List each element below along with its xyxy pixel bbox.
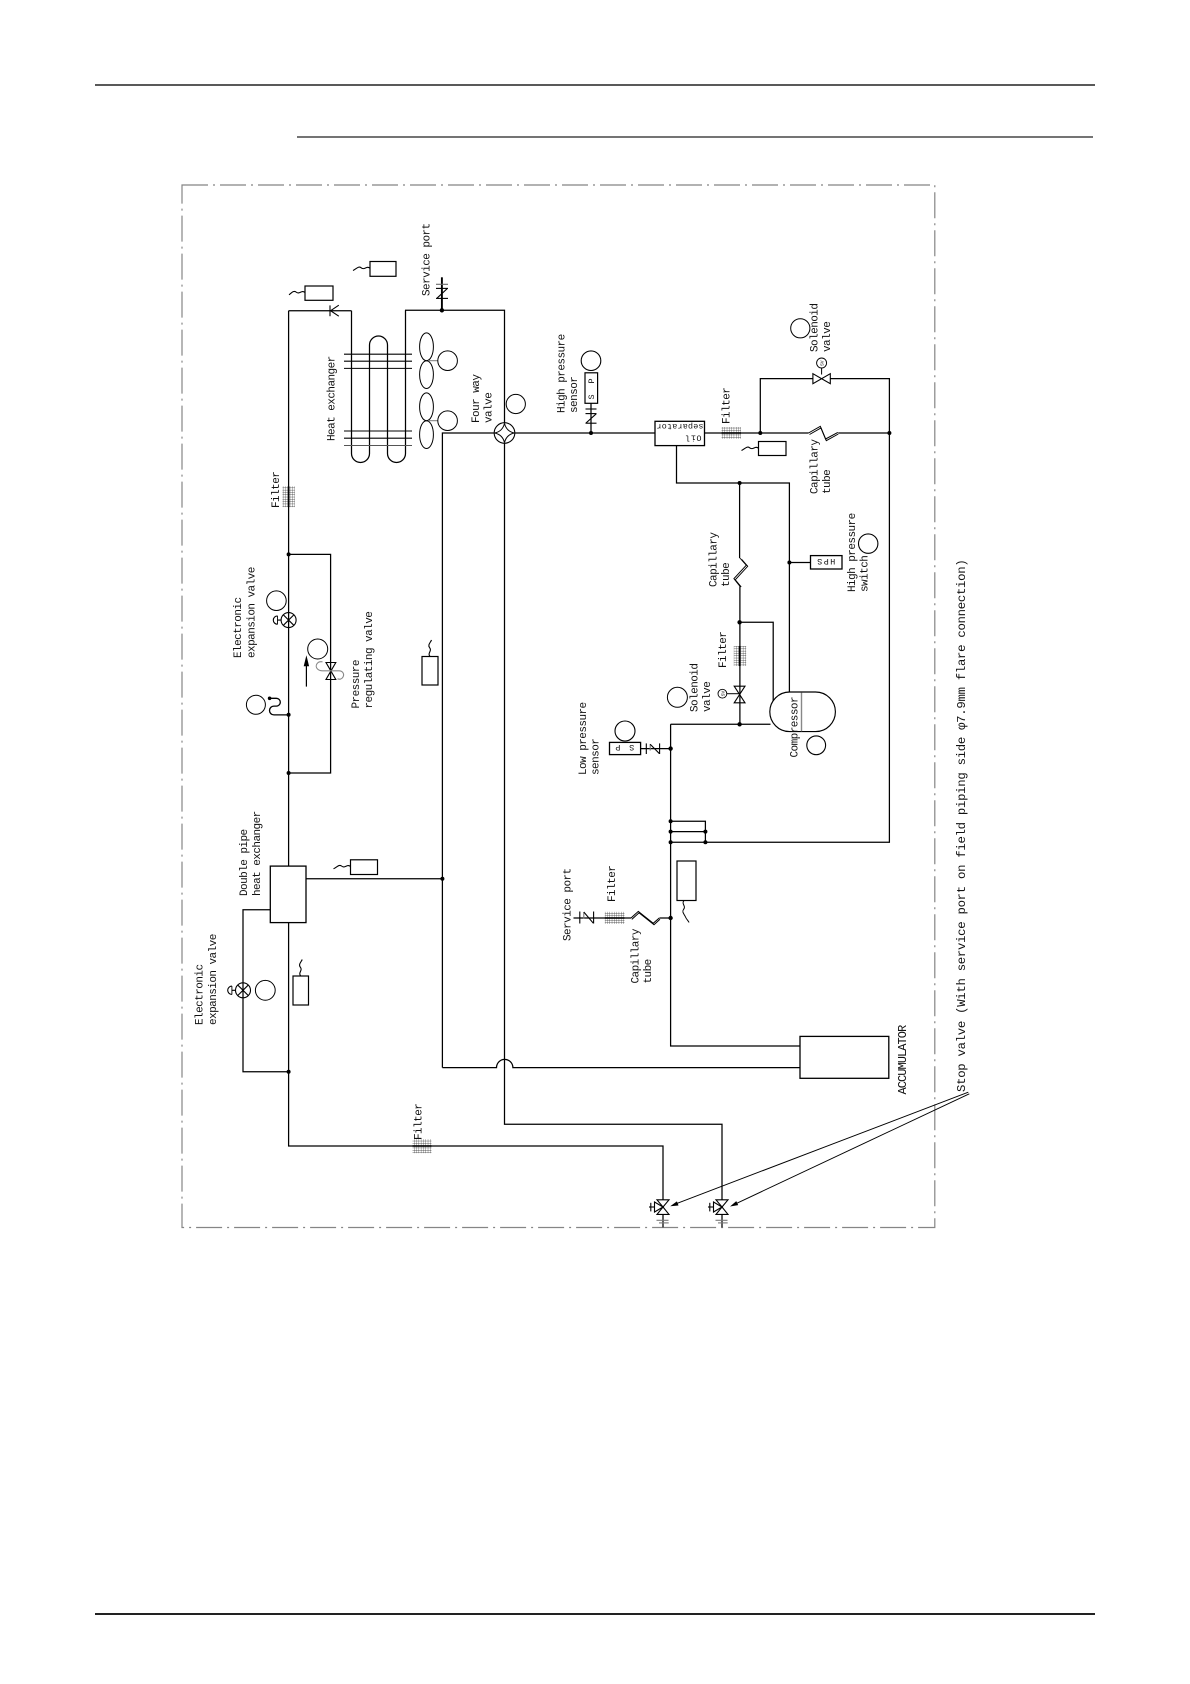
filter on branch line	[605, 912, 625, 924]
pressure regulating valve coil	[308, 639, 328, 659]
strainer on suction line	[677, 861, 696, 923]
accumulator	[800, 1036, 889, 1078]
high pressure sensor circle	[581, 351, 601, 371]
svg-text:Electronic: Electronic	[233, 597, 245, 658]
check valve on liquid line	[330, 305, 339, 316]
leader arrow to gas stop valve	[670, 1092, 968, 1206]
svg-text:Filter: Filter	[722, 388, 734, 424]
svg-text:separator: separator	[657, 421, 704, 431]
bottom rule	[95, 1613, 1095, 1615]
leader arrow to liquid stop valve	[730, 1094, 969, 1207]
filter on discharge line	[722, 427, 742, 439]
compressor motor circle	[807, 736, 826, 755]
thermistor top A	[353, 262, 396, 277]
svg-text:Service port: Service port	[563, 868, 575, 941]
high pressure switch circle	[859, 534, 878, 553]
wire: low pressure sensor stub	[641, 748, 671, 750]
electronic expansion valve 2 coil	[255, 980, 275, 1000]
wire: main left line	[289, 311, 663, 1200]
oil separator	[655, 421, 705, 445]
svg-text:Filter: Filter	[607, 866, 619, 902]
wire: four way valve left port to left drop line	[442, 433, 494, 1068]
svg-text:switch: switch	[860, 556, 872, 592]
svg-text:SV: SV	[820, 360, 826, 366]
svg-text:Filter: Filter	[414, 1104, 426, 1140]
wire: right line down to sub heat exchanger	[671, 433, 890, 842]
heat exchanger coil	[352, 310, 406, 462]
double pipe heat exchanger	[270, 866, 306, 923]
svg-text:Pressure: Pressure	[351, 660, 363, 708]
wire: four way valve bottom port down to right stop valve	[505, 443, 723, 1200]
junction dots	[440, 308, 444, 312]
svg-text:sensor: sensor	[569, 377, 581, 413]
wire: high pressure sensor stub	[590, 403, 592, 433]
suction thermistor circle	[246, 695, 265, 714]
service port symbol on branch line	[580, 912, 594, 924]
thermistor top B	[289, 286, 333, 300]
wire: oil separator bottom to compressor discharge	[677, 446, 790, 692]
svg-text:Electronic: Electronic	[195, 964, 207, 1025]
pressure regulating valve swirl	[316, 662, 343, 680]
svg-text:High pressure: High pressure	[847, 513, 859, 592]
suction thermistor S pipe	[270, 698, 289, 715]
low pressure sensor circle	[615, 721, 635, 741]
wire: heat exchanger top to four way valve	[405, 310, 505, 422]
svg-text:Capillary: Capillary	[810, 439, 822, 494]
thermistor near EEV2	[293, 960, 309, 1006]
fan 2 propeller	[420, 393, 438, 449]
wire: solenoid bypass over capillary	[760, 379, 889, 433]
svg-text:Heat exchanger: Heat exchanger	[327, 356, 339, 441]
wire: double pipe hx left port to EEV2 drop	[243, 910, 289, 1072]
electronic expansion valve 2 body	[228, 983, 251, 998]
svg-text:Double pipe: Double pipe	[239, 829, 251, 896]
wire: service branch line with filter and capillary	[574, 917, 671, 919]
four way valve sensor bulb	[506, 394, 525, 413]
svg-text:HPS: HPS	[817, 556, 835, 566]
electronic expansion valve 1 coil	[267, 591, 287, 611]
svg-text:valve: valve	[484, 393, 496, 423]
svg-text:Solenoid: Solenoid	[690, 664, 702, 712]
four way valve	[494, 423, 515, 444]
svg-text:Solenoid: Solenoid	[810, 304, 822, 352]
svg-text:expansion valve: expansion valve	[208, 934, 220, 1025]
high pressure switch HPS box	[811, 556, 843, 569]
capillary tube on branch line	[631, 911, 660, 924]
svg-text:valve: valve	[702, 682, 714, 712]
svg-text:tube: tube	[643, 959, 655, 983]
svg-text:High pressure: High pressure	[557, 334, 569, 413]
service port top symbol	[436, 277, 448, 310]
second rule	[297, 136, 1093, 138]
svg-text:heat exchanger: heat exchanger	[252, 811, 264, 896]
wire: four way valve right port discharge line	[515, 432, 890, 434]
filter on main left line	[283, 486, 295, 507]
thermistor near oil separator	[742, 442, 787, 456]
svg-text:Capillary: Capillary	[709, 532, 721, 587]
high pressure sensor SP box	[585, 373, 598, 404]
wire: high pressure switch stub	[789, 562, 810, 564]
wire: pressure regulating valve bypass loop	[289, 554, 331, 773]
heat exchanger fins top	[344, 354, 412, 368]
svg-text:Oil: Oil	[686, 432, 702, 442]
top rule	[95, 84, 1095, 86]
dash-dot unit border	[182, 185, 935, 1228]
wire: suction line down to accumulator	[671, 724, 800, 1046]
filter on left bottom line	[413, 1139, 432, 1153]
thermistor near double pipe hx	[334, 860, 378, 875]
svg-text:Compressor: Compressor	[790, 697, 802, 758]
svg-text:valve: valve	[822, 322, 834, 352]
solenoid valve top right	[791, 319, 831, 384]
low pressure sensor SP box	[610, 742, 641, 754]
svg-text:Four way: Four way	[471, 374, 483, 423]
wire: accumulator inlet from left drop line with crossover hump	[442, 1059, 800, 1067]
fan 2 motor	[438, 411, 458, 431]
fan 1 propeller	[420, 333, 438, 389]
svg-text:Service port: Service port	[422, 223, 434, 296]
low pressure sensor service valve symbol	[646, 743, 659, 754]
electronic expansion valve 1 body	[273, 613, 296, 628]
wire: double pipe hx right port to left drop line	[306, 878, 442, 880]
filter on oil return line	[734, 646, 746, 666]
svg-text:SV: SV	[721, 691, 727, 697]
wire: suction line to compressor	[671, 723, 771, 725]
svg-text:tube: tube	[822, 470, 834, 494]
svg-text:regulating valve: regulating valve	[364, 612, 376, 709]
svg-text:ACCUMULATOR: ACCUMULATOR	[896, 1025, 910, 1095]
pressure regulating valve flow arrow	[304, 655, 309, 686]
capillary tube on discharge line	[809, 426, 839, 440]
heat exchanger fins bottom	[344, 431, 412, 446]
wire: oil return branch into compressor casing	[740, 622, 774, 701]
svg-text:Capillary: Capillary	[631, 928, 643, 983]
svg-text:Low pressure: Low pressure	[578, 702, 590, 775]
svg-text:tube: tube	[721, 563, 733, 587]
thermistor on left drop line	[422, 640, 438, 685]
fan 1 motor	[438, 351, 458, 371]
stop valve gas side	[649, 1200, 669, 1228]
svg-text:sensor: sensor	[591, 739, 603, 775]
svg-text:Filter: Filter	[718, 632, 730, 668]
svg-text:expansion valve: expansion valve	[247, 567, 259, 658]
wire: oil return line with capillary filter solenoid	[739, 483, 741, 724]
svg-text:Stop valve (With service port: Stop valve (With service port on field p…	[955, 560, 969, 1092]
high pressure sensor service valve symbol	[586, 409, 597, 423]
sub heat exchange loop on suction pipe	[671, 821, 706, 842]
wire: liquid line top left to heat exchanger	[289, 310, 352, 312]
svg-text:Filter: Filter	[271, 472, 283, 508]
solenoid valve on oil return line	[667, 686, 745, 707]
pressure regulating valve body	[326, 663, 336, 680]
stop valve liquid side	[708, 1200, 728, 1228]
compressor body	[770, 692, 836, 732]
capillary tube on oil return line	[734, 558, 748, 587]
